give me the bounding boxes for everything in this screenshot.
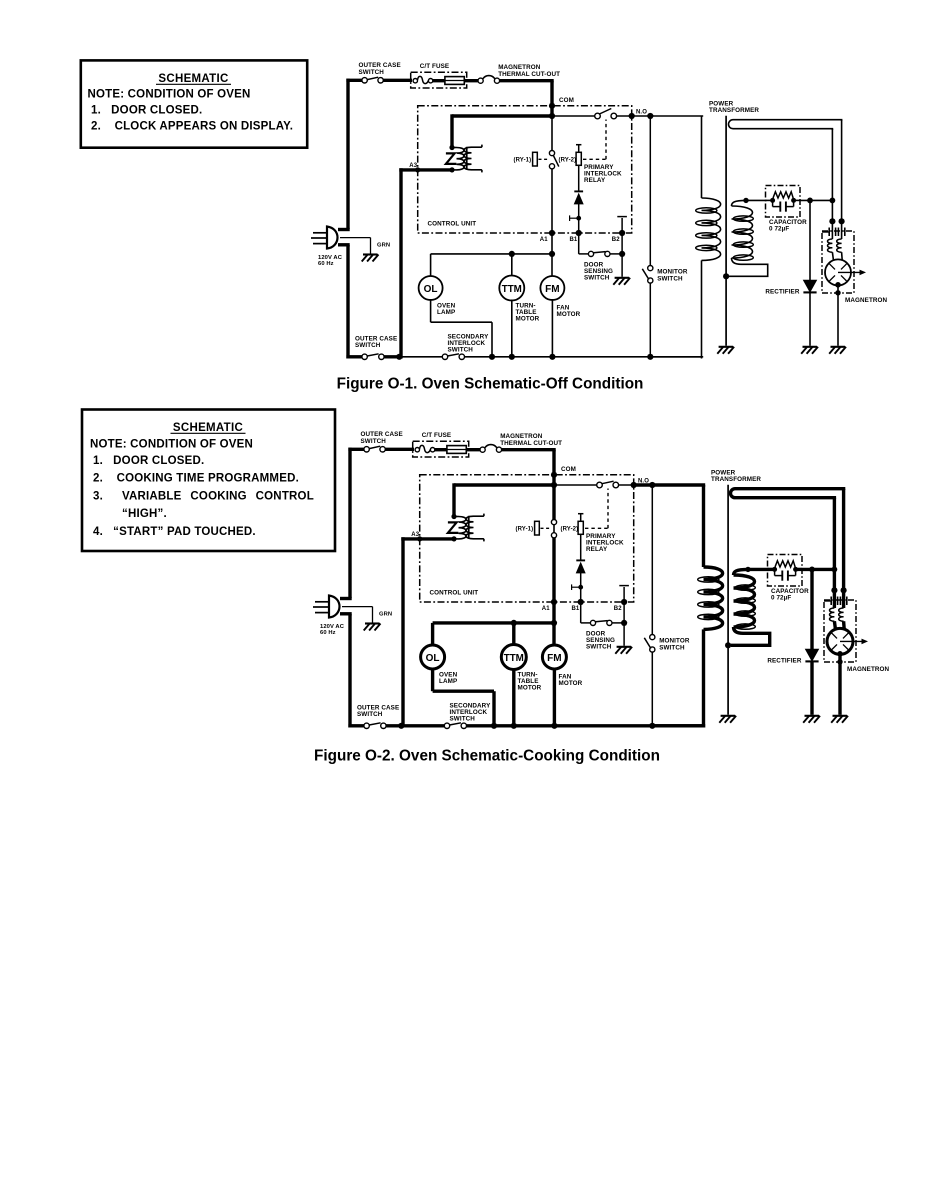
junction monitor bottom bbox=[647, 354, 653, 360]
node N.O bbox=[631, 482, 637, 488]
wire neutral rail bbox=[401, 537, 404, 727]
wire hairpin heater bbox=[731, 489, 844, 592]
junction COM feed bbox=[549, 113, 555, 119]
switch S1 outer case top bbox=[364, 446, 385, 452]
oven lamp OL bbox=[421, 645, 445, 669]
fuse F1 box bbox=[411, 72, 467, 88]
label OUTER CASE SWITCH top bbox=[359, 62, 401, 76]
label PRIMARY INTERLOCK RELAY bbox=[586, 533, 624, 553]
wire TTM drop bbox=[511, 254, 513, 277]
svg-text:NOTE: CONDITION OF OVEN: NOTE: CONDITION OF OVEN bbox=[88, 89, 251, 101]
note2 text NOTE bbox=[90, 439, 253, 451]
caption figure O-1 bbox=[337, 376, 644, 393]
junction feed left bbox=[831, 587, 837, 593]
wire top rail bbox=[348, 448, 364, 451]
note item 1 DOOR CLOSED bbox=[91, 105, 202, 117]
svg-text:120V AC: 120V AC bbox=[318, 255, 343, 261]
junction monitor bbox=[649, 482, 655, 488]
wire COM to contact bbox=[552, 115, 595, 117]
label GRN bbox=[379, 611, 392, 617]
svg-text:SWITCH: SWITCH bbox=[659, 645, 685, 652]
junction tap bbox=[578, 585, 583, 590]
oven lamp OL bbox=[419, 276, 443, 300]
diode D1 rectifier bbox=[803, 280, 816, 292]
svg-text:MOTOR: MOTOR bbox=[518, 684, 542, 691]
svg-text:(RY-2): (RY-2) bbox=[559, 157, 577, 163]
svg-text:THERMAL CUT-OUT: THERMAL CUT-OUT bbox=[500, 440, 562, 447]
svg-text:RELAY: RELAY bbox=[586, 546, 608, 553]
wire bbox=[502, 450, 556, 487]
label SECONDARY INTERLOCK SWITCH bbox=[448, 334, 490, 354]
svg-text:LAMP: LAMP bbox=[437, 309, 455, 316]
wire NO to primary bbox=[632, 116, 704, 198]
junction rectifier top bbox=[807, 198, 813, 204]
label MAGNETRON THERMAL CUT-OUT bbox=[498, 64, 560, 78]
node magnetron cathode bbox=[835, 282, 841, 288]
label B1 bbox=[572, 606, 580, 612]
wire cap to junctions bbox=[802, 568, 836, 571]
label OUTER CASE SWITCH bottom bbox=[357, 704, 399, 718]
junction TTM bbox=[509, 354, 515, 360]
capacitor C1 box bbox=[768, 555, 803, 587]
label GRN bbox=[377, 242, 390, 248]
wire bottom rail right bbox=[466, 724, 703, 727]
svg-text:VARIABLE COOKING CONTROL: VARIABLE COOKING CONTROL bbox=[122, 490, 314, 502]
magnetron spokes bbox=[829, 264, 846, 281]
magnetron antenna arrow bbox=[838, 270, 866, 276]
junction dist FM bbox=[549, 251, 555, 257]
svg-text:60 Hz: 60 Hz bbox=[318, 261, 334, 267]
wire RY-1 lower bbox=[552, 487, 555, 604]
wire NO to primary bbox=[634, 485, 706, 567]
note2 item 4 bbox=[93, 526, 256, 538]
svg-text:“HIGH”.: “HIGH”. bbox=[122, 508, 167, 520]
label MONITOR SWITCH bbox=[659, 638, 690, 652]
junction A3 box edge bbox=[417, 536, 422, 541]
svg-text:SWITCH: SWITCH bbox=[450, 715, 476, 722]
junction dist FM bbox=[551, 620, 557, 626]
wire bbox=[383, 79, 412, 82]
ground transformer bbox=[719, 716, 736, 723]
transformer T2 core bbox=[466, 147, 468, 170]
junction FM bbox=[549, 354, 555, 360]
junction neutral rail bbox=[396, 354, 402, 360]
transformer T1 core bbox=[725, 116, 727, 346]
capacitor C1 plates bbox=[775, 569, 796, 580]
wire top rail bbox=[346, 79, 362, 82]
junction rectifier top bbox=[809, 567, 815, 573]
junction feed right bbox=[841, 587, 847, 593]
svg-text:3.: 3. bbox=[93, 490, 103, 502]
svg-text:GRN: GRN bbox=[377, 242, 390, 248]
junction box edge bbox=[837, 659, 842, 664]
wire monitor upper bbox=[651, 485, 653, 635]
label A1 bbox=[542, 606, 550, 612]
wire bottom rail right bbox=[464, 356, 701, 358]
turntable motor TTM bbox=[501, 645, 526, 670]
wire to B2 leg bbox=[612, 622, 624, 624]
magnetron antenna arrow bbox=[840, 639, 868, 645]
label RY-1 bbox=[516, 526, 534, 532]
wire through cap bbox=[768, 568, 803, 571]
label CAPACITOR 0.72uF bbox=[769, 219, 807, 232]
label SECONDARY INTERLOCK SWITCH bbox=[450, 703, 492, 723]
node B2 bbox=[619, 230, 625, 236]
transformer T2 primary bottom node bbox=[449, 167, 454, 172]
link RY-1 bbox=[541, 527, 552, 529]
junction monitor bottom bbox=[649, 723, 655, 729]
fuse F1 cartridge bbox=[445, 77, 464, 85]
transformer T1 core bbox=[727, 485, 729, 715]
relay RY-2 terminal bbox=[578, 514, 583, 522]
transformer T2 primary top node bbox=[451, 514, 456, 519]
node cap right bbox=[793, 567, 798, 572]
wire hot rail left bbox=[348, 448, 351, 728]
label RY-2 bbox=[561, 526, 579, 532]
label CAPACITOR 0.72uF bbox=[771, 588, 809, 601]
wire hot rail left bbox=[346, 79, 349, 359]
junction neutral rail bbox=[398, 723, 404, 729]
svg-text:SCHEMATIC: SCHEMATIC bbox=[173, 422, 243, 434]
junction core bottom bbox=[725, 642, 731, 648]
svg-text:60 Hz: 60 Hz bbox=[320, 630, 336, 636]
svg-text:GRN: GRN bbox=[379, 611, 392, 617]
capacitor C1 box bbox=[766, 186, 801, 218]
label FAN MOTOR bbox=[557, 305, 581, 318]
ground rectifier bbox=[803, 716, 820, 723]
wire to B2 leg bbox=[610, 253, 622, 255]
wire A3 bbox=[399, 168, 452, 171]
wire feeds lower bbox=[834, 621, 844, 630]
svg-text:MAGNETRON: MAGNETRON bbox=[847, 666, 890, 673]
wire cap to junctions bbox=[800, 199, 834, 201]
ground door switch bbox=[615, 647, 632, 654]
relay RY-1 contact bbox=[549, 151, 558, 169]
magnetron box bbox=[822, 231, 854, 293]
transformer T1 secondary coil bbox=[729, 200, 768, 276]
fuse F1 element bbox=[415, 445, 435, 452]
svg-text:LAMP: LAMP bbox=[439, 678, 457, 685]
transformer T2 secondary bbox=[464, 145, 482, 173]
wire feeds lower bbox=[832, 252, 842, 261]
svg-text:COM: COM bbox=[561, 466, 576, 473]
svg-text:RECTIFIER: RECTIFIER bbox=[767, 657, 801, 664]
transformer T1 secondary coil bbox=[731, 569, 770, 645]
svg-text:SWITCH: SWITCH bbox=[448, 346, 474, 353]
label COM bbox=[559, 97, 574, 104]
label TURNTABLE MOTOR bbox=[518, 672, 542, 692]
ground transformer bbox=[717, 347, 734, 354]
test tap stub bbox=[572, 584, 581, 590]
label COM bbox=[561, 466, 576, 473]
ground chassis plug bbox=[364, 624, 381, 631]
svg-text:NOTE: CONDITION OF OVEN: NOTE: CONDITION OF OVEN bbox=[90, 439, 253, 451]
wire LV primary feed bbox=[452, 114, 554, 148]
svg-text:RECTIFIER: RECTIFIER bbox=[765, 288, 799, 295]
transformer T1 primary ellipses bbox=[696, 208, 717, 251]
control unit box bbox=[418, 106, 632, 233]
svg-text:120V AC: 120V AC bbox=[320, 624, 345, 630]
note2 item 3 bbox=[93, 490, 314, 502]
svg-text:B1: B1 bbox=[570, 237, 578, 243]
transformer T2 primary top node bbox=[449, 145, 454, 150]
svg-text:MOTOR: MOTOR bbox=[557, 311, 581, 318]
wire ground green bbox=[340, 238, 371, 254]
svg-text:2. COOKING TIME PROGRAMMED.: 2. COOKING TIME PROGRAMMED. bbox=[93, 473, 299, 485]
wire B1 down bbox=[581, 602, 591, 623]
node A1 bbox=[551, 599, 557, 605]
wire distribution bbox=[433, 623, 554, 646]
wire FM bottom bbox=[551, 299, 553, 359]
wire bbox=[384, 355, 401, 358]
label MAGNETRON THERMAL CUT-OUT bbox=[500, 433, 562, 447]
wire A3 bbox=[401, 537, 454, 540]
note box figure O-1 bbox=[81, 60, 307, 147]
svg-text:MOTOR: MOTOR bbox=[559, 680, 583, 687]
wire OL bottom bbox=[431, 299, 492, 359]
junction FM bbox=[551, 723, 557, 729]
svg-text:B2: B2 bbox=[614, 606, 622, 612]
svg-text:Figure O-1. Oven Schematic-Off: Figure O-1. Oven Schematic-Off Condition bbox=[337, 376, 644, 393]
transformer T1 primary ellipses bbox=[698, 577, 719, 620]
wire A1 down bbox=[551, 233, 553, 277]
feedthrough capacitors bbox=[822, 228, 845, 237]
magnetron V1 body bbox=[827, 628, 853, 654]
label B2 bbox=[614, 606, 622, 612]
junction mag left bbox=[832, 567, 838, 573]
fan motor FM bbox=[542, 645, 566, 669]
switch monitor bbox=[644, 635, 655, 653]
wire monitor upper bbox=[649, 116, 651, 266]
junction feed left bbox=[829, 218, 835, 224]
wire primary to rail bbox=[652, 629, 705, 727]
relay RY-2 contact COM-NO bbox=[597, 481, 619, 488]
switch S2 outer case bottom bbox=[364, 723, 386, 729]
wire secondary to capacitor bbox=[748, 568, 769, 571]
label PRIMARY INTERLOCK RELAY bbox=[584, 164, 622, 184]
label OUTER CASE SWITCH bottom bbox=[355, 335, 397, 349]
junction dist TTM bbox=[509, 251, 515, 257]
label FAN MOTOR bbox=[559, 674, 583, 687]
svg-text:FM: FM bbox=[545, 284, 559, 295]
node B1 bbox=[578, 599, 584, 605]
wire rectifier to ground bbox=[810, 661, 813, 714]
transformer T1 primary coil bbox=[702, 198, 721, 260]
diode D1 rectifier bbox=[805, 649, 818, 661]
note2 text SCHEMATIC bbox=[171, 422, 246, 434]
AC plug P1 bbox=[311, 227, 350, 249]
label A3 bbox=[409, 163, 417, 169]
label POWER TRANSFORMER bbox=[711, 469, 761, 483]
fuse F1 element bbox=[413, 76, 433, 83]
svg-text:A3: A3 bbox=[411, 532, 419, 538]
wire monitor lower bbox=[651, 652, 653, 728]
label A1 bbox=[540, 237, 548, 243]
relay RY-2 contact COM-NO bbox=[595, 109, 617, 119]
choke coils bbox=[828, 239, 842, 252]
wire ground green bbox=[342, 607, 373, 623]
wire diode to B1 bbox=[580, 573, 582, 604]
wire magnetron ground bbox=[837, 285, 839, 346]
wire hairpin heater bbox=[729, 120, 842, 223]
transformer T2 secondary bbox=[466, 514, 484, 542]
AC plug P1 bbox=[313, 596, 352, 618]
svg-text:B2: B2 bbox=[612, 237, 620, 243]
note text NOTE: CONDITION OF OVEN bbox=[88, 89, 251, 101]
label POWER TRANSFORMER bbox=[709, 100, 759, 114]
junction tap bbox=[576, 216, 581, 221]
wire COM to contact bbox=[554, 484, 597, 486]
transformer T2 primary coil bbox=[452, 148, 464, 170]
label OVEN LAMP bbox=[437, 303, 456, 316]
feedthrough capacitors bbox=[824, 597, 847, 606]
wire bottom rail left bbox=[346, 355, 362, 358]
svg-text:C/T FUSE: C/T FUSE bbox=[420, 63, 450, 70]
label TURNTABLE MOTOR bbox=[516, 303, 540, 323]
switch monitor bbox=[642, 266, 653, 284]
resistor bleeder bbox=[773, 192, 794, 201]
wire distribution bbox=[431, 254, 552, 277]
control unit box bbox=[420, 475, 634, 602]
label MONITOR SWITCH bbox=[657, 269, 688, 283]
svg-text:TTM: TTM bbox=[502, 284, 522, 295]
magnetron box bbox=[824, 600, 856, 662]
label RY-1 bbox=[514, 157, 532, 163]
wire feeds bbox=[834, 590, 843, 608]
svg-text:SWITCH: SWITCH bbox=[586, 644, 612, 651]
wire RY-2 to diode bbox=[578, 165, 580, 191]
switch S3 secondary interlock bbox=[442, 354, 464, 360]
ground magnetron bbox=[829, 347, 846, 354]
svg-text:(RY-2): (RY-2) bbox=[561, 526, 579, 532]
svg-text:MOTOR: MOTOR bbox=[516, 315, 540, 322]
capacitor C1 plates bbox=[773, 200, 794, 211]
label C/T FUSE bbox=[422, 432, 452, 439]
wire bottom rail left bbox=[348, 724, 364, 727]
ground rectifier bbox=[801, 347, 818, 354]
wire rectifier to ground bbox=[809, 292, 811, 345]
node B1 bbox=[576, 230, 582, 236]
junction feed right bbox=[839, 218, 845, 224]
label OVEN LAMP bbox=[439, 672, 458, 685]
wire B2 ground bbox=[621, 233, 623, 277]
label B1 bbox=[570, 237, 578, 243]
transformer T2 core bbox=[468, 516, 470, 539]
diode D2 relay bbox=[574, 191, 583, 204]
node cap right bbox=[791, 198, 796, 203]
svg-text:(RY-1): (RY-1) bbox=[516, 526, 534, 532]
label C/T FUSE bbox=[420, 63, 450, 70]
svg-text:Figure O-2. Oven Schematic-Coo: Figure O-2. Oven Schematic-Cooking Condi… bbox=[314, 748, 660, 765]
wire secondary to capacitor bbox=[746, 199, 767, 201]
transformer T2 primary coil bbox=[454, 517, 466, 539]
label 120V AC 60 Hz bbox=[318, 255, 343, 267]
test tap stub bbox=[570, 215, 579, 221]
junction COM feed bbox=[551, 482, 557, 488]
label DOOR SENSING SWITCH bbox=[584, 262, 613, 282]
wire monitor lower bbox=[649, 283, 651, 359]
node B2 bbox=[621, 599, 627, 605]
svg-text:0 72µF: 0 72µF bbox=[771, 595, 791, 602]
svg-text:COM: COM bbox=[559, 97, 574, 104]
label MAGNETRON bbox=[847, 666, 890, 673]
junction dist TTM bbox=[511, 620, 517, 626]
svg-text:A3: A3 bbox=[409, 163, 417, 169]
link RY-2 bbox=[583, 120, 606, 160]
switch S1 outer case top bbox=[362, 77, 383, 83]
note text SCHEMATIC bbox=[156, 73, 231, 85]
switch S2 outer case bottom bbox=[362, 354, 384, 360]
wire bbox=[386, 724, 403, 727]
turntable motor TTM bbox=[499, 276, 524, 301]
junction monitor bbox=[647, 113, 653, 119]
relay RY-2 coil bbox=[576, 152, 581, 165]
transformer T2 varistor Z bbox=[446, 153, 457, 164]
fuse F1 box bbox=[413, 441, 469, 457]
wire bbox=[466, 448, 480, 451]
svg-text:SWITCH: SWITCH bbox=[657, 276, 683, 283]
magnetron spokes bbox=[831, 633, 848, 650]
caption figure O-2 bbox=[314, 748, 660, 765]
ground magnetron bbox=[831, 716, 848, 723]
node secondary top bbox=[745, 567, 750, 572]
label RECTIFIER bbox=[767, 657, 801, 664]
wire A1 down bbox=[552, 602, 555, 646]
wire TTM bottom bbox=[511, 300, 513, 359]
wire TTM drop bbox=[512, 623, 515, 646]
svg-text:A1: A1 bbox=[540, 237, 548, 243]
junction TTM bbox=[511, 723, 517, 729]
svg-text:OL: OL bbox=[424, 284, 438, 295]
stub B2 frame bbox=[617, 217, 627, 233]
wire FM bottom bbox=[553, 668, 556, 728]
junction box edge bbox=[835, 290, 840, 295]
svg-text:TRANSFORMER: TRANSFORMER bbox=[709, 107, 759, 114]
junction core bottom bbox=[723, 273, 729, 279]
wire bbox=[401, 724, 444, 727]
wire primary to rail bbox=[650, 260, 703, 358]
wire OL bottom bbox=[433, 668, 494, 728]
svg-text:A1: A1 bbox=[542, 606, 550, 612]
svg-text:FM: FM bbox=[547, 653, 561, 664]
choke coils bbox=[830, 608, 844, 621]
label CONTROL UNIT bbox=[430, 590, 479, 597]
svg-text:1. DOOR CLOSED.: 1. DOOR CLOSED. bbox=[91, 105, 202, 117]
svg-text:C/T FUSE: C/T FUSE bbox=[422, 432, 452, 439]
transformer T2 primary bottom node bbox=[451, 536, 456, 541]
node COM bbox=[549, 103, 555, 109]
node cap left bbox=[772, 567, 777, 572]
svg-text:TRANSFORMER: TRANSFORMER bbox=[711, 476, 761, 483]
label N.O bbox=[636, 109, 647, 115]
label RECTIFIER bbox=[765, 288, 799, 295]
wire bbox=[435, 448, 447, 451]
wire neutral rail bbox=[399, 168, 402, 358]
fuse F1 cartridge bbox=[447, 446, 466, 454]
svg-text:CONTROL UNIT: CONTROL UNIT bbox=[430, 590, 479, 597]
relay RY-1 contact bbox=[551, 520, 556, 538]
wire TTM bottom bbox=[512, 669, 515, 728]
relay RY-1 coil bbox=[533, 152, 538, 166]
svg-text:4. “START” PAD TOUCHED.: 4. “START” PAD TOUCHED. bbox=[93, 526, 256, 538]
svg-text:SWITCH: SWITCH bbox=[584, 275, 610, 282]
svg-text:SCHEMATIC: SCHEMATIC bbox=[158, 73, 228, 85]
transformer T1 primary coil bbox=[704, 567, 723, 629]
stub B2 frame bbox=[619, 586, 629, 602]
svg-text:SWITCH: SWITCH bbox=[357, 711, 383, 718]
node A1 bbox=[549, 230, 555, 236]
wire bbox=[433, 79, 445, 82]
